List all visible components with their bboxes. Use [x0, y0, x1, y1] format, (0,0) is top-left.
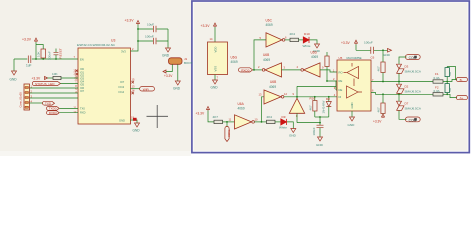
- svg-text:A+: A+: [460, 96, 464, 100]
- wire auto-dir bottom node: [315, 116, 329, 118]
- capacitor C6 100uF: [364, 41, 375, 60]
- fuse F2: [433, 86, 443, 96]
- ground (D10): [313, 44, 321, 53]
- wire J2 pin1 to U3: [30, 87, 79, 89]
- svg-text:+3.3V: +3.3V: [341, 41, 351, 45]
- op inverter U6D (points left): [301, 51, 320, 78]
- svg-text:GND: GND: [10, 78, 18, 82]
- svg-text:4069: 4069: [231, 60, 238, 64]
- wire GND pin of U3: [131, 120, 138, 123]
- svg-text:+3.3V: +3.3V: [164, 74, 173, 78]
- svg-text:4069: 4069: [238, 106, 245, 110]
- net label STATUS_LED: [32, 81, 78, 86]
- op IC U5 MAX3485 transceiver body: [337, 56, 371, 111]
- wire +3.3V to 4K7: [208, 111, 214, 122]
- op IC U3 ESP32 module body: [77, 39, 131, 125]
- svg-text:DE: DE: [339, 88, 343, 92]
- diode D8 1N4148W: [322, 97, 332, 117]
- svg-text:Conn_01x05: Conn_01x05: [18, 92, 22, 108]
- resistor R (2K4 tx led): [267, 115, 276, 123]
- svg-text:GND: GND: [162, 54, 170, 58]
- svg-text:RXD0: RXD0: [241, 68, 250, 72]
- svg-text:2K4: 2K4: [290, 32, 296, 36]
- connector J1 BOOT: [169, 57, 193, 65]
- svg-text:ESP32-C3-WROOM-02-N4: ESP32-C3-WROOM-02-N4: [77, 43, 115, 47]
- svg-text:4K7: 4K7: [309, 105, 313, 111]
- svg-text:U6B: U6B: [263, 53, 269, 57]
- wire J2 pin2 to U3: [30, 92, 79, 94]
- svg-text:STATUS_LED: STATUS_LED: [35, 82, 55, 86]
- power +3.3V (3V3 pin rail): [125, 19, 140, 25]
- svg-text:100nF: 100nF: [312, 127, 316, 135]
- wire RX branch up to U6C input: [254, 40, 266, 70]
- junction dots jumper column: [446, 81, 448, 83]
- junction dot TX branch: [261, 121, 263, 123]
- power +3.3V (status led pullup): [32, 77, 48, 81]
- wire to LED D9: [275, 121, 281, 123]
- resistor R16 (auto-dir): [309, 97, 317, 117]
- wire TX branch up to U6F input: [262, 97, 265, 122]
- svg-text:SMAJ6.5CA: SMAJ6.5CA: [405, 69, 421, 73]
- svg-text:U5: U5: [339, 56, 343, 60]
- wire U6G to ground: [214, 75, 216, 81]
- wire TXD0 tap down: [226, 122, 228, 127]
- junction dot rail: [382, 49, 384, 51]
- svg-text:U3: U3: [111, 39, 115, 43]
- junction dots A/B rows: [382, 81, 384, 83]
- svg-text:+3.3V: +3.3V: [201, 24, 211, 28]
- net label RXD0: [47, 111, 79, 115]
- net label TXD0: [47, 107, 79, 111]
- svg-text:RXD: RXD: [80, 111, 86, 115]
- wire 10K to pin 18: [61, 77, 78, 79]
- connector J2 body: [18, 84, 29, 110]
- wire J2 pin3 to U3: [30, 97, 79, 99]
- svg-text:GND: GND: [383, 53, 391, 57]
- junction dots on auto-direction net: [314, 96, 316, 98]
- TVS diode D7: [397, 94, 421, 119]
- junction dot at U6E output: [296, 96, 298, 98]
- svg-text:MAX3485E: MAX3485E: [347, 56, 362, 60]
- ground (MAX): [348, 117, 356, 127]
- svg-text:D10: D10: [304, 32, 310, 36]
- svg-text:+3.3V: +3.3V: [196, 112, 206, 116]
- ground (J1): [173, 81, 181, 91]
- wire EN rail: [14, 58, 78, 60]
- svg-text:U6B: U6B: [270, 80, 276, 84]
- wire F2 to A+: [443, 94, 457, 97]
- net label RXD0: [239, 68, 253, 73]
- capacitor C (100nF delay): [312, 117, 324, 137]
- wire J1 left pin to +3.3V: [166, 64, 172, 71]
- wire LED to ground: [310, 40, 318, 44]
- wire rail: [356, 44, 388, 50]
- wire +3.3V to U6G: [214, 27, 216, 42]
- net label COM (top): [405, 55, 420, 60]
- svg-text:0R: 0R: [448, 88, 452, 92]
- capacitor C (100nF): [145, 34, 156, 44]
- svg-text:4069: 4069: [266, 23, 273, 27]
- resistor R (10K pullup on EN): [36, 45, 46, 60]
- wire 4K7 to U6A: [223, 121, 235, 123]
- svg-text:4K7: 4K7: [213, 115, 219, 119]
- ground (U6G): [211, 80, 219, 90]
- svg-text:100uF: 100uF: [364, 41, 373, 45]
- op IC U6G power unit body: [208, 42, 238, 75]
- svg-text:4069: 4069: [263, 58, 270, 62]
- svg-text:+3.3V: +3.3V: [125, 19, 135, 23]
- wire U6F out to DI: [284, 96, 337, 98]
- wire D9 to ground: [287, 122, 293, 129]
- ground (delay cap): [316, 137, 324, 147]
- capacitor C (100nF on reset): [48, 49, 59, 61]
- op inverter U6A: [235, 102, 255, 129]
- svg-text:TXD: TXD: [45, 102, 52, 106]
- wire U6D input from MAX RO: [320, 70, 337, 72]
- wire resistor to LED: [299, 39, 304, 41]
- left schematic panel background: [0, 0, 191, 151]
- svg-text:1N4148W: 1N4148W: [322, 100, 326, 113]
- ground (decoupling caps): [162, 48, 171, 58]
- net label COM (bottom): [405, 117, 420, 122]
- svg-text:D3: D3: [405, 64, 409, 68]
- junction marker (red square): [133, 118, 137, 121]
- junction dot RX branch: [253, 69, 255, 71]
- svg-text:10K: 10K: [37, 51, 41, 57]
- wire J2 pin4 to TXD label: [30, 102, 44, 104]
- power +3.3V (U6A pullup): [196, 107, 210, 116]
- power +3.3V (J1): [163, 70, 173, 78]
- resistor R (10K series status led): [52, 72, 61, 80]
- svg-text:2K4: 2K4: [267, 115, 273, 119]
- power flag GND (arrow right): [383, 49, 392, 58]
- power +3.3V (MAX vcc lower): [373, 114, 385, 123]
- resistor R (4K7 pullup TXD0): [213, 115, 223, 123]
- LED D9: [279, 115, 287, 130]
- svg-text:4069: 4069: [311, 55, 318, 59]
- svg-text:TX0: TX0: [80, 106, 85, 110]
- svg-text:D8: D8: [326, 97, 330, 101]
- svg-text:GND: GND: [173, 87, 181, 91]
- svg-text:GND: GND: [348, 123, 356, 127]
- svg-text:U6C: U6C: [266, 19, 273, 23]
- net label B-: [456, 77, 467, 82]
- ground (D9): [289, 129, 297, 138]
- svg-text:10uF: 10uF: [147, 22, 154, 26]
- wire MAX gnd: [351, 111, 353, 117]
- bottom strip left (very light): [0, 151, 191, 156]
- wire U6E base to tx node: [296, 113, 298, 122]
- wire RXD0 to U6B: [253, 69, 262, 71]
- wire MAX A pin row: [371, 81, 433, 83]
- white base: [0, 0, 474, 156]
- svg-text:D7: D7: [405, 101, 409, 105]
- svg-text:WiFi: WiFi: [143, 87, 149, 91]
- fuse F1: [433, 72, 443, 83]
- wire U6B to U6D: [282, 69, 301, 71]
- svg-text:100nF: 100nF: [145, 34, 154, 38]
- op inverter U6F (tx to DI): [264, 90, 284, 104]
- svg-text:U6D: U6D: [311, 51, 318, 55]
- junction dot RE: [326, 80, 328, 82]
- wire 3V3 riser: [131, 25, 139, 52]
- wire MAX B pin row: [371, 93, 433, 95]
- svg-text:D2: D2: [405, 84, 409, 88]
- svg-text:1uF: 1uF: [26, 64, 32, 68]
- svg-text:GND: GND: [289, 134, 297, 138]
- no-connect X marks left pins: [76, 70, 78, 76]
- svg-text:RESET: RESET: [59, 48, 63, 58]
- wire J1 right pin to ground: [177, 64, 179, 81]
- wire F1 to B-: [443, 80, 457, 82]
- TVS diode D2: [397, 82, 421, 95]
- net label TXD0 (vertical): [225, 126, 231, 141]
- right panel white margin: [191, 0, 470, 153]
- wire to 10K: [48, 77, 54, 79]
- op inverter U6E (points up): [289, 98, 304, 113]
- resistor R (2K4 led): [290, 32, 299, 42]
- wire U6A out: [254, 121, 266, 123]
- no-connect X marks right pins of U3: [132, 81, 134, 94]
- svg-text:GND: GND: [350, 102, 354, 108]
- resistor R (pullup on RE net): [325, 52, 329, 81]
- wire +3.3V down to EN rail: [35, 42, 37, 59]
- wire caps to ground: [167, 29, 169, 48]
- wire RE/DE tie: [297, 81, 337, 98]
- net label TXD: [43, 101, 55, 105]
- capacitor C (1uF): [26, 56, 32, 68]
- net label A+: [456, 96, 467, 101]
- svg-text:+3.3V: +3.3V: [32, 77, 42, 81]
- svg-text:IO13: IO13: [119, 85, 125, 89]
- wire WiFi pin: [131, 88, 141, 90]
- svg-text:GND: GND: [316, 143, 324, 147]
- svg-text:SMAJ6.5CA: SMAJ6.5CA: [405, 106, 421, 110]
- svg-text:R16: R16: [310, 97, 316, 101]
- right schematic panel background: [194, 2, 468, 150]
- svg-text:4K7: 4K7: [376, 107, 380, 113]
- wire COM to D3: [399, 57, 407, 64]
- net label WiFi: [140, 87, 155, 92]
- resistor R (4K7 pull A): [376, 50, 385, 81]
- svg-text:GND: GND: [133, 129, 141, 133]
- svg-text:IO14: IO14: [119, 90, 125, 94]
- svg-text:VSS: VSS: [214, 66, 218, 72]
- svg-text:RXD0: RXD0: [49, 111, 57, 115]
- svg-text:0.3A: 0.3A: [434, 89, 440, 93]
- svg-text:GND: GND: [119, 118, 125, 122]
- power +3.3V (reset rail): [22, 38, 38, 42]
- svg-text:0.3A: 0.3A: [434, 76, 440, 80]
- wire cap branch top: [138, 28, 168, 30]
- svg-text:3V3: 3V3: [121, 49, 126, 53]
- svg-text:IO7: IO7: [80, 90, 85, 93]
- wire tx node horizontal: [297, 122, 320, 124]
- receiver triangle inside: [347, 67, 359, 79]
- jumper JP2 (termination): [445, 82, 452, 95]
- driver triangle inside: [347, 86, 359, 98]
- svg-text:BOOT: BOOT: [184, 61, 193, 65]
- svg-text:IO7: IO7: [120, 80, 125, 84]
- svg-text:+3.3V: +3.3V: [373, 119, 382, 123]
- svg-text:4K7: 4K7: [376, 66, 380, 72]
- cursor crosshair: [147, 105, 169, 128]
- ground (left of 1uF cap): [10, 59, 18, 82]
- svg-text:+3.3V: +3.3V: [22, 38, 32, 42]
- svg-text:0R: 0R: [448, 72, 452, 76]
- capacitor C (10uF): [147, 22, 156, 32]
- junction dots on riser: [137, 28, 139, 30]
- wire U6C out to resistor: [285, 39, 290, 41]
- svg-text:DI: DI: [339, 95, 342, 99]
- op inverter U6C: [266, 19, 285, 48]
- junction dots on EN rail: [35, 58, 37, 60]
- svg-text:White: White: [303, 44, 311, 48]
- LED D10: [303, 32, 311, 48]
- svg-text:VDD: VDD: [214, 47, 218, 53]
- svg-text:SMAJ6.5CA: SMAJ6.5CA: [405, 89, 421, 93]
- svg-text:D9: D9: [282, 115, 286, 119]
- right panel purple border: [192, 1, 469, 153]
- junction dot cap node: [319, 116, 321, 118]
- svg-text:White: White: [279, 126, 287, 130]
- svg-text:RO: RO: [339, 71, 343, 75]
- jumper JP1 (termination): [445, 67, 456, 82]
- svg-text:4069: 4069: [269, 85, 276, 89]
- svg-text:EN: EN: [80, 57, 84, 61]
- TVS diode D3: [397, 64, 421, 81]
- power +3.3V (U6G supply): [201, 23, 217, 28]
- junction dot TXD0 tap: [226, 121, 228, 123]
- svg-text:C6: C6: [371, 56, 375, 60]
- resistor R (pull B): [376, 94, 385, 114]
- power +3.3V (bus supply): [341, 40, 358, 45]
- svg-text:RE: RE: [339, 79, 343, 83]
- wire cap branch bottom: [138, 40, 168, 42]
- ground (U3): [133, 123, 141, 133]
- svg-text:B-: B-: [460, 78, 463, 82]
- svg-text:10K: 10K: [52, 72, 58, 76]
- svg-text:GND: GND: [211, 86, 219, 90]
- op inverter U6B (points left): [262, 53, 281, 89]
- svg-text:100nF: 100nF: [48, 51, 52, 60]
- svg-text:TXD0: TXD0: [227, 129, 231, 137]
